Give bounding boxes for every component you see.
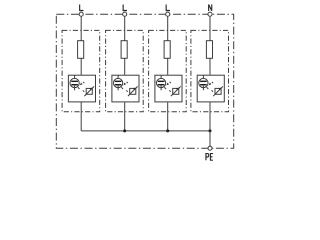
outer device enclosure (dash-dot): [56, 14, 233, 148]
wire U1 to PE bus: [80, 102, 82, 130]
disconnector / fuse F3: [164, 41, 170, 59]
PE bus wire (horizontal): [81, 130, 210, 132]
terminal N (pole 4) circle: [208, 12, 212, 16]
thermal linkage dashed segment (lower): [169, 90, 170, 91]
spark gap / thermal disconnect contact lead (top) U2: [117, 75, 119, 80]
spark gap contact lead (bottom): [74, 86, 76, 91]
thermal linkage arrowhead pointing at contact: [80, 83, 83, 86]
disconnector / fuse F1: [78, 41, 84, 59]
thermal linkage dashed arrow (upper dash): [170, 82, 171, 83]
spark gap circle U1: [70, 78, 79, 87]
thermal linkage dashed arrow (upper dash): [83, 82, 84, 83]
label L: [166, 5, 170, 11]
SPD element box U1: [68, 75, 95, 102]
label PE (letter E): [210, 154, 213, 161]
thermal linkage arrowhead pointing at contact: [209, 83, 212, 86]
wire L3 terminal to protection module (through disconnector): [167, 17, 169, 75]
thermal linkage dashed segment (lower): [83, 90, 84, 91]
module enclosure (pluggable protection module 2, dash-dot): [106, 30, 144, 111]
wire L1 terminal to protection module (through disconnector): [80, 17, 82, 75]
junction node ch2/bus: [123, 129, 126, 132]
module enclosure (pluggable protection module 4, dash-dot): [191, 30, 229, 111]
wire bus to PE terminal: [209, 131, 211, 146]
thermal linkage dashed segment (mid): [164, 87, 166, 89]
spark gap circle U3: [156, 78, 165, 87]
label L: [123, 5, 127, 11]
varistor RV3 diagonal arrow: [171, 86, 181, 96]
thermal linkage dashed arrow (upper dash): [212, 82, 213, 83]
thermal linkage dashed arrow (upper dash): [127, 82, 128, 83]
varistor arrowhead: [133, 88, 135, 90]
thermal linkage arrowhead pointing at contact: [123, 83, 126, 86]
spark gap contact lead (bottom): [117, 86, 119, 91]
thermal linkage dashed segment (lower): [212, 90, 213, 91]
label L: [80, 5, 84, 11]
spark gap electrode bar (upper): [200, 81, 207, 82]
disconnector / fuse F2: [121, 41, 127, 59]
wire L2 terminal to protection module (through disconnector): [124, 17, 126, 75]
SPD element box U3: [155, 75, 182, 102]
spark gap electrode bar (lower): [158, 84, 165, 85]
PE terminal circle: [208, 146, 212, 150]
spark gap electrode bar (upper): [71, 81, 78, 82]
thermal linkage dashed segment (mid): [78, 87, 80, 89]
spark gap electrode bar (lower): [115, 84, 122, 85]
varistor RV4 diagonal arrow: [213, 86, 223, 96]
thermal linkage dashed segment (mid): [121, 87, 123, 89]
spark gap circle U4: [199, 78, 208, 87]
spark gap contact lead (bottom): [160, 86, 162, 91]
disconnector / fuse F4: [206, 41, 212, 59]
wire U3 to PE bus: [167, 102, 169, 130]
thermal linkage dashed segment (mid): [207, 87, 209, 89]
spark gap / thermal disconnect contact lead (top) U3: [160, 75, 162, 80]
junction node ch4/bus: [209, 129, 212, 132]
varistor arrowhead: [176, 88, 178, 90]
spark gap electrode bar (lower): [200, 84, 207, 85]
module enclosure (pluggable protection module 1, dash-dot): [62, 30, 100, 111]
varistor RV1 diagonal arrow: [84, 86, 94, 96]
varistor RV1 body: [86, 88, 92, 94]
spark gap / thermal disconnect contact lead (top) U4: [202, 75, 204, 80]
wire U4 to PE bus: [209, 102, 211, 130]
thermal linkage dashed segment (lower): [126, 90, 127, 91]
varistor RV3 body: [173, 88, 179, 94]
terminal L (pole 1) circle: [79, 12, 83, 16]
label N: [209, 4, 212, 11]
terminal L (pole 2) circle: [123, 12, 127, 16]
spark gap circle U2: [113, 78, 122, 87]
varistor arrowhead: [90, 88, 92, 90]
varistor RV2 body: [130, 88, 136, 94]
label PE (letter P): [206, 154, 209, 161]
spark gap electrode bar (upper): [158, 81, 165, 82]
varistor RV2 diagonal arrow: [128, 86, 138, 96]
SPD element box U4: [197, 75, 224, 102]
spark gap / thermal disconnect contact lead (top) U1: [74, 75, 76, 80]
module enclosure (pluggable protection module 3, dash-dot): [149, 30, 187, 111]
thermal linkage arrowhead pointing at contact: [166, 83, 169, 86]
wire U2 to PE bus: [124, 102, 126, 130]
varistor arrowhead: [218, 88, 220, 90]
SPD element box U2: [112, 75, 139, 102]
spark gap contact lead (bottom): [202, 86, 204, 91]
terminal L (pole 3) circle: [166, 12, 170, 16]
spark gap electrode bar (lower): [71, 84, 78, 85]
varistor RV4 body: [215, 88, 221, 94]
junction node ch3/bus: [166, 129, 169, 132]
spark gap electrode bar (upper): [115, 81, 122, 82]
wire N4 terminal to protection module (through disconnector): [209, 17, 211, 75]
